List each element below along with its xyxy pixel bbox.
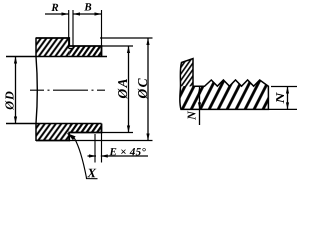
detail dimension N right <box>287 87 289 110</box>
part left face upper <box>35 38 37 57</box>
dimension ØD <box>15 57 17 124</box>
bore bottom line + ØD extension <box>6 123 102 125</box>
bore left edge curve <box>36 57 37 124</box>
main view: upper flange hatched block <box>36 38 69 57</box>
main view: upper serrated band dense hatch <box>69 46 101 57</box>
groove notch upper (white) <box>69 46 73 49</box>
dimension ØA <box>102 45 134 47</box>
part left face lower <box>35 124 37 142</box>
detail X: serrated bar fill <box>180 80 269 109</box>
part outline lower <box>36 124 102 141</box>
groove bottom upper <box>69 48 73 50</box>
detail X: outline <box>180 59 269 110</box>
leader to detail X <box>67 133 97 178</box>
main view: lower serrated band dense hatch <box>69 124 101 133</box>
label X <box>87 169 96 178</box>
dimension R <box>45 13 69 15</box>
detail dimension N left <box>199 87 201 126</box>
dimension B <box>73 13 102 15</box>
centerline <box>30 89 105 91</box>
detail X: serrated section column fill <box>180 59 193 87</box>
groove wall / R-B extension line right <box>72 10 74 49</box>
dimension ØC <box>100 37 153 39</box>
main view: lower flange hatched block <box>36 124 69 141</box>
dimension E x 45 extension lines <box>94 134 96 163</box>
groove wall / R-B extension line left <box>68 10 70 49</box>
bore top line + ØD extension <box>6 56 107 58</box>
B right extension line <box>101 10 103 46</box>
part outline upper <box>36 38 102 57</box>
detail dimension N right extension lines <box>271 86 297 88</box>
dimension E x 45 <box>88 155 97 157</box>
